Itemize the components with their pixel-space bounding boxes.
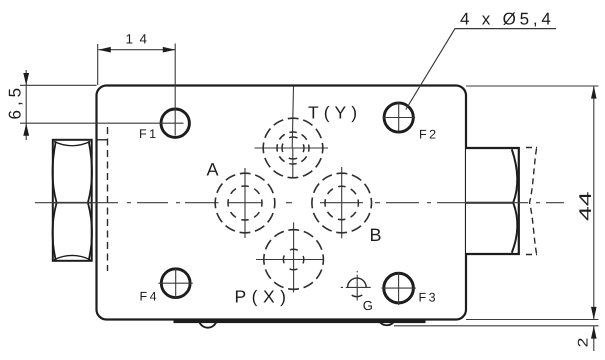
dimension 44: top extension line — [466, 85, 599, 87]
dimension 14 arrows — [98, 47, 175, 53]
right hex middle line — [466, 202, 514, 204]
locating pin bump left — [199, 322, 216, 328]
dimension 6,5: top extension (body top edge extended left) — [20, 84, 97, 86]
port P(X) outer circle — [264, 230, 324, 290]
mounting hole F3 — [384, 273, 414, 303]
port T(Y) drain line to top edge — [292, 87, 293, 149]
svg-text:F2: F2 — [419, 128, 439, 142]
mounting hole F1 — [161, 109, 189, 137]
svg-text:F1: F1 — [139, 127, 159, 141]
svg-text:G: G — [363, 298, 373, 313]
gauge port G dashed circle — [348, 278, 367, 297]
dimension 6,5 line — [25, 70, 27, 140]
svg-text:A: A — [207, 160, 219, 180]
port P(X) small circle — [283, 249, 303, 269]
dimension 2 line below — [593, 326, 595, 351]
right hex fitting — [466, 148, 519, 254]
svg-text:T(Y): T(Y) — [308, 103, 362, 123]
main horizontal centerline — [35, 202, 564, 204]
left hex middle line — [53, 202, 92, 204]
port B vertical cross — [341, 167, 343, 238]
F3 cross — [381, 272, 416, 305]
left port top tick — [97, 139, 109, 141]
dimension 14 line — [99, 49, 176, 51]
valve body plate outline — [97, 86, 467, 320]
dimension 2: lower extension line (pin bottom) — [394, 325, 599, 327]
port B outer circle — [312, 173, 372, 233]
F4 cross — [159, 269, 193, 299]
right hex hidden corner profile — [526, 148, 537, 255]
svg-text:6,5: 6,5 — [6, 84, 25, 120]
G vertical dash-dot — [356, 271, 358, 301]
left hex facet curves — [53, 141, 92, 260]
dimension 14: extension line at body left edge — [97, 44, 99, 85]
port A outer circle — [215, 173, 275, 233]
svg-text:F3: F3 — [419, 291, 439, 305]
svg-text:F4: F4 — [140, 290, 160, 304]
port A vertical cross — [244, 168, 246, 238]
dimension 44 line — [593, 86, 595, 320]
dimension 2 arrow — [591, 326, 597, 339]
svg-text:4 x Ø5,4: 4 x Ø5,4 — [460, 10, 555, 29]
port T(Y) vertical cross — [292, 148, 294, 179]
left hex fitting outer rect — [53, 140, 92, 261]
dimension 44: bottom extension line — [466, 319, 599, 321]
port P(X) vertical cross — [293, 222, 295, 292]
callout 4 x Ø5,4 leader — [406, 29, 556, 110]
mounting hole F2 — [384, 103, 413, 132]
F1 vertical cross / extension — [174, 44, 176, 136]
svg-text:B: B — [370, 225, 382, 245]
port T(Y) horizontal cross — [255, 147, 329, 149]
port T(Y) outer circle — [263, 118, 323, 178]
bottom seal plate bar — [174, 319, 426, 323]
svg-text:2: 2 — [575, 337, 591, 347]
dimension 44 arrows — [591, 86, 597, 320]
G horizontal dash-dot — [341, 286, 371, 288]
svg-text:14: 14 — [126, 32, 154, 47]
port A inner circle — [228, 186, 262, 220]
right hex facet curve — [512, 149, 517, 253]
left hex chamfer arcs — [54, 142, 90, 260]
F2 cross — [383, 102, 416, 131]
locating pin bump right — [380, 322, 394, 325]
port P(X) horizontal cross — [256, 259, 324, 261]
left port hidden dashed line — [107, 127, 109, 271]
svg-text:P(X): P(X) — [235, 287, 292, 307]
port T(Y) middle circle — [277, 132, 309, 164]
mounting hole F4 — [161, 269, 190, 298]
port T(Y) small circle — [282, 137, 304, 159]
svg-text:44: 44 — [576, 192, 595, 222]
F1 horizontal cross / extension — [20, 122, 184, 124]
dimension 6,5 arrows — [23, 73, 29, 136]
port B inner circle — [325, 186, 358, 219]
